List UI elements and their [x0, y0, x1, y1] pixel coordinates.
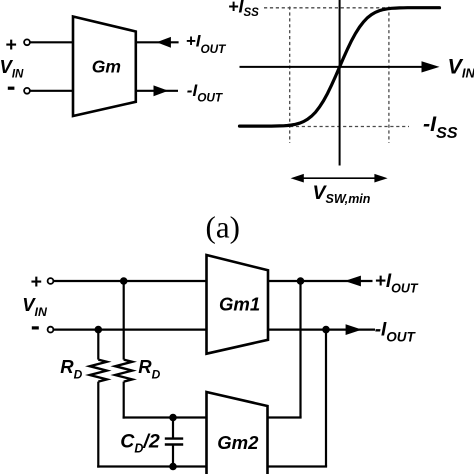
svg-text:Gm2: Gm2 [217, 432, 259, 453]
svg-text:+: + [30, 271, 41, 293]
svg-text:+: + [5, 34, 16, 56]
svg-text:Gm1: Gm1 [219, 294, 260, 315]
svg-text:(a): (a) [206, 209, 240, 244]
svg-text:Gm: Gm [92, 57, 121, 77]
